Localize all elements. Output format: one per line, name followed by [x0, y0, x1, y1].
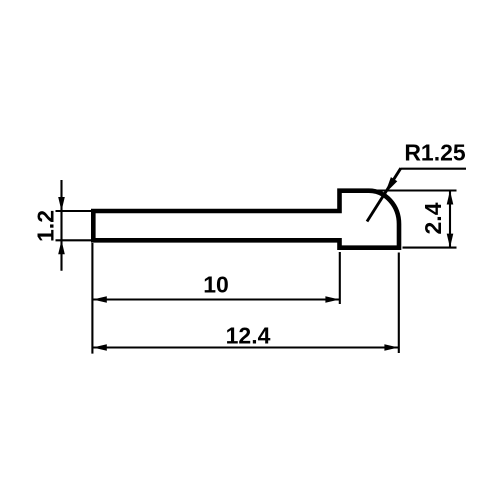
profile outline: [93, 191, 399, 248]
dimension 12.4 line and arrows: [92, 344, 398, 351]
radius leader R1.25 underline: [401, 168, 467, 170]
dimension 2.4 line and arrows: [447, 191, 454, 248]
radius leader R1.25 diagonal: [367, 168, 401, 221]
dimension 10 line and arrows: [92, 296, 339, 303]
svg-text:10: 10: [203, 272, 229, 298]
dimension 1.2 text: [33, 210, 59, 242]
svg-text:12.4: 12.4: [226, 323, 271, 349]
dimension 1.2 line and arrows: [58, 180, 65, 271]
dimension 1.2 extension line bottom: [56, 239, 96, 241]
dimension 2.4 text: [420, 202, 446, 234]
dimension 10 right extension line: [339, 252, 341, 304]
dimension 1.2 extension line top: [56, 210, 96, 212]
radius label R1.25 text: [404, 140, 466, 166]
dimension 2.4 extension line top: [368, 189, 457, 191]
dimension 12.4 text: [226, 323, 271, 349]
svg-text:1.2: 1.2: [33, 210, 59, 242]
dimension 12.4 right extension line: [398, 253, 400, 354]
dimension 2.4 extension line bottom: [403, 247, 457, 249]
dimension 10 text: [203, 272, 229, 298]
svg-text:2.4: 2.4: [420, 202, 446, 234]
dimension 10 left extension line: [91, 243, 93, 354]
svg-text:R1.25: R1.25: [404, 140, 466, 166]
